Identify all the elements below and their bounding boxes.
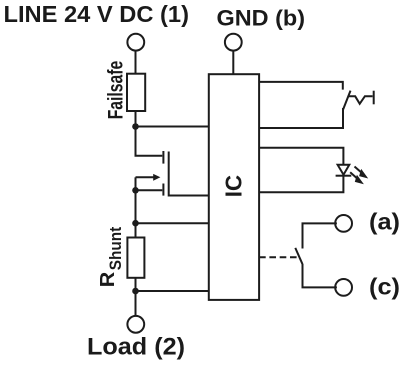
svg-text:R: R bbox=[97, 271, 119, 287]
svg-text:GND (b): GND (b) bbox=[217, 5, 306, 30]
svg-text:IC: IC bbox=[221, 175, 247, 197]
svg-text:Failsafe: Failsafe bbox=[105, 61, 128, 120]
svg-text:(a): (a) bbox=[369, 209, 400, 235]
svg-text:LINE 24 V DC (1): LINE 24 V DC (1) bbox=[4, 1, 190, 27]
svg-text:(c): (c) bbox=[369, 274, 400, 300]
svg-text:Load (2): Load (2) bbox=[87, 334, 185, 361]
svg-text:Shunt: Shunt bbox=[107, 226, 125, 270]
